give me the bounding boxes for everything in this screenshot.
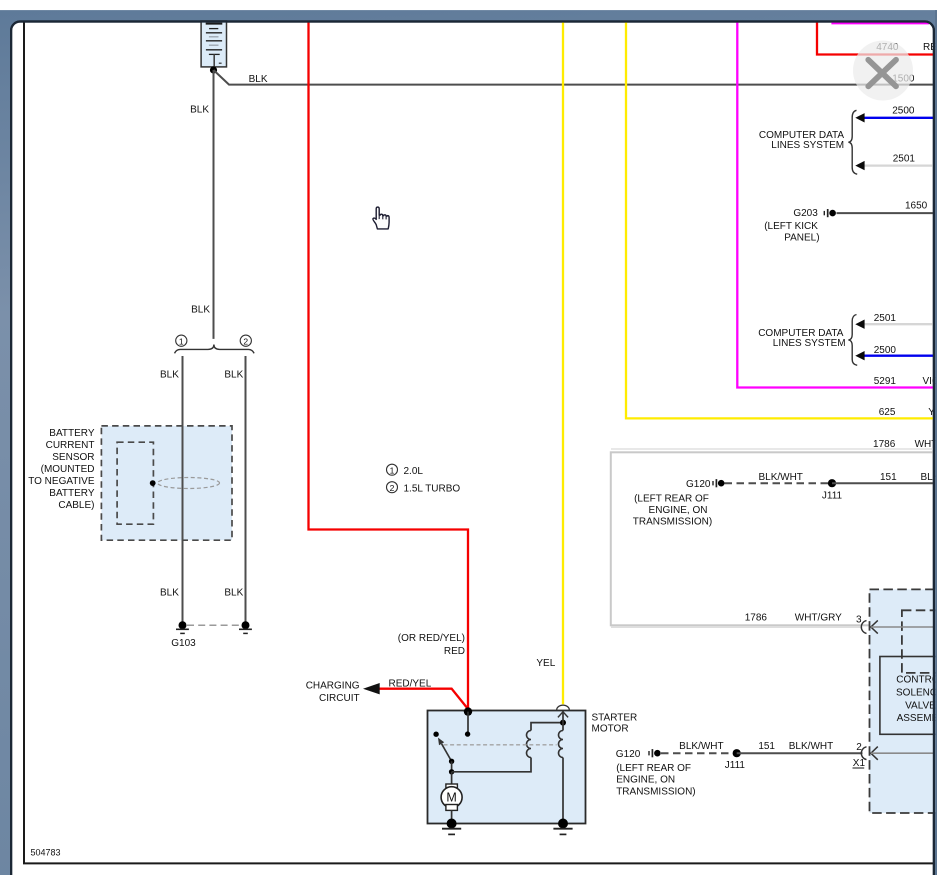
svg-text:BLK: BLK <box>249 74 268 85</box>
ground G103 left <box>176 621 189 633</box>
svg-text:151: 151 <box>758 741 775 752</box>
node: branch dot <box>449 769 454 774</box>
label circled 2 note <box>387 482 461 495</box>
arrow 2500 lower <box>855 351 864 360</box>
svg-text:BLK: BLK <box>160 369 179 380</box>
node: coil top dot <box>560 720 566 726</box>
arrow to charging circuit <box>363 683 380 694</box>
svg-text:BLK/WHT: BLK/WHT <box>789 741 833 752</box>
svg-text:(MOUNTED: (MOUNTED <box>41 464 95 475</box>
svg-text:J111: J111 <box>725 760 746 771</box>
svg-text:SOLENOID: SOLENOID <box>896 688 937 699</box>
label X1 <box>853 758 866 769</box>
wire YEL 625 <box>626 21 933 418</box>
wire feed stub <box>467 712 469 734</box>
svg-text:TO NEGATIVE: TO NEGATIVE <box>28 476 95 487</box>
wire dashed BLK/WHT upper <box>725 482 833 484</box>
svg-text:BATTERY: BATTERY <box>49 428 95 439</box>
svg-text:G103: G103 <box>171 638 196 649</box>
wire BLK horizontal from battery to right edge <box>214 70 934 85</box>
wire WHT 1786 upper <box>611 448 933 450</box>
svg-text:(OR RED/YEL): (OR RED/YEL) <box>398 633 465 644</box>
mechanical linkage dashed <box>444 744 557 746</box>
svg-text:RED: RED <box>444 646 465 657</box>
label circled 1 <box>176 335 187 346</box>
ground motor case <box>442 819 461 835</box>
ground G120 upper <box>713 479 725 487</box>
solenoid inner dashed box <box>902 610 937 673</box>
arrow 2501 <box>855 161 864 170</box>
node: stub end dot <box>465 731 470 736</box>
label circled 1 note <box>387 464 424 477</box>
wire 151 BLK/WHT lower <box>737 752 863 754</box>
svg-text:BLK: BLK <box>191 304 210 315</box>
label circled 2 <box>240 335 251 346</box>
svg-text:BLK/WHT: BLK/WHT <box>758 472 802 483</box>
svg-text:CONTROL: CONTROL <box>896 674 937 685</box>
switch arm <box>438 738 452 762</box>
wire to coil bottom <box>452 758 531 772</box>
wire 151 BLK upper <box>832 482 933 484</box>
node J111 upper <box>828 479 836 487</box>
svg-text:BLK: BLK <box>160 588 179 599</box>
svg-text:(LEFT REAR OF: (LEFT REAR OF <box>616 763 691 774</box>
connector pin 2 X1 <box>861 747 933 760</box>
wire 1650 <box>837 212 934 214</box>
dashed link between grounds <box>187 624 241 626</box>
svg-text:G203: G203 <box>793 208 818 219</box>
wire RED 4740 top right <box>817 21 933 55</box>
node: sensor tap dot <box>150 480 156 486</box>
svg-text:2500: 2500 <box>874 345 897 356</box>
node: red feed dot <box>464 707 472 715</box>
battery current sensor box <box>101 426 232 540</box>
svg-text:G120: G120 <box>616 749 641 760</box>
svg-text:BLK: BLK <box>190 105 209 116</box>
mouse cursor (hand) <box>373 207 389 229</box>
connector pin 3 <box>861 620 933 633</box>
solenoid valve dashed box <box>870 589 937 813</box>
svg-text:BATTERY: BATTERY <box>49 488 95 499</box>
wire BLK branch1 over sensor <box>182 426 184 540</box>
svg-text:151: 151 <box>880 472 897 483</box>
wire BLK branch 1 vertical <box>182 356 184 625</box>
svg-text:2500: 2500 <box>892 105 915 116</box>
switch contact dot <box>433 732 438 737</box>
node: switch lower dot <box>449 759 454 764</box>
wire GRY 2501 <box>864 164 933 166</box>
connector: yellow wire entry <box>557 705 570 717</box>
svg-text:ENGINE, ON: ENGINE, ON <box>616 775 675 786</box>
svg-text:PANEL): PANEL) <box>784 232 819 243</box>
svg-text:2: 2 <box>390 483 395 493</box>
motor M <box>441 772 462 824</box>
svg-text:1: 1 <box>179 336 184 346</box>
svg-text:1786: 1786 <box>745 612 768 623</box>
wire BLK vertical from battery down <box>213 70 215 339</box>
svg-text:STARTER: STARTER <box>592 712 638 723</box>
svg-text:G120: G120 <box>686 479 711 490</box>
wire to motor node <box>451 761 453 772</box>
svg-text:504783: 504783 <box>31 847 61 857</box>
wire BLK branch 2 vertical <box>245 356 247 625</box>
node: battery negative junction <box>210 66 217 73</box>
starter motor box <box>428 711 586 824</box>
brace: wire split <box>175 345 255 354</box>
svg-text:LINES SYSTEM: LINES SYSTEM <box>773 338 846 349</box>
brace group 2 <box>848 315 857 366</box>
close button <box>853 41 913 101</box>
svg-text:(LEFT KICK: (LEFT KICK <box>764 221 818 232</box>
right frame sliver <box>935 10 937 875</box>
wire VIO top <box>831 22 929 24</box>
solenoid inner solid box <box>880 657 937 735</box>
svg-text:1: 1 <box>390 465 395 475</box>
svg-text:2501: 2501 <box>874 313 897 324</box>
wire BLU 2500 <box>864 117 933 119</box>
wire RED main feed <box>309 21 469 712</box>
svg-text:1786: 1786 <box>873 439 896 450</box>
svg-text:CHARGING: CHARGING <box>306 680 360 691</box>
svg-text:YEL: YEL <box>536 658 555 669</box>
wire dashed BLK/WHT lower <box>661 752 737 754</box>
svg-text:VALVE: VALVE <box>905 701 936 712</box>
wire VIO 5291 <box>737 21 933 388</box>
wire YEL to starter <box>562 21 564 704</box>
wire WHT/GRY 1786 lower <box>611 626 863 628</box>
wire GRY 2501 lower <box>864 323 933 325</box>
wire BLU 2500 lower <box>864 355 933 357</box>
svg-text:X1: X1 <box>853 758 866 769</box>
svg-text:BLK/WHT: BLK/WHT <box>679 741 723 752</box>
svg-text:TRANSMISSION): TRANSMISSION) <box>633 517 712 528</box>
svg-text:1650: 1650 <box>905 201 928 212</box>
svg-text:2.0L: 2.0L <box>404 466 424 477</box>
coil L1 (pull-in winding) <box>527 731 532 758</box>
svg-text:(LEFT REAR OF: (LEFT REAR OF <box>634 494 709 505</box>
svg-text:3: 3 <box>856 615 862 626</box>
node J111 lower <box>733 749 741 757</box>
wire solenoid return <box>562 712 564 731</box>
svg-text:CURRENT: CURRENT <box>46 440 95 451</box>
svg-text:1.5L TURBO: 1.5L TURBO <box>404 483 461 494</box>
sensor clamp dashed ellipse <box>158 478 220 489</box>
svg-text:J111: J111 <box>822 491 843 502</box>
ground solenoid <box>553 819 572 835</box>
arrow 2501 lower <box>855 320 864 329</box>
wire RED/YEL charging circuit branch <box>380 689 469 709</box>
svg-text:ENGINE, ON: ENGINE, ON <box>649 505 708 516</box>
label CONTROL SOLENOID VALVE ASSEMBLY <box>896 674 937 724</box>
highlight box (gray) <box>611 452 937 625</box>
svg-text:625: 625 <box>879 407 896 418</box>
wire coil top link <box>531 723 563 731</box>
ground G120 lower <box>649 749 661 757</box>
svg-text:MOTOR: MOTOR <box>592 724 629 735</box>
ground G203 <box>824 209 836 217</box>
svg-text:CABLE): CABLE) <box>58 500 94 511</box>
svg-text:LINES SYSTEM: LINES SYSTEM <box>771 140 844 151</box>
arrow 2500 <box>855 113 864 122</box>
svg-text:WHT/GRY: WHT/GRY <box>795 612 842 623</box>
svg-text:2: 2 <box>243 336 248 346</box>
svg-text:BLK: BLK <box>224 369 243 380</box>
battery B1 <box>201 21 226 67</box>
svg-text:2501: 2501 <box>893 154 916 165</box>
brace group 1 <box>848 110 857 174</box>
ground right of G103 <box>239 621 252 633</box>
svg-text:RED/YEL: RED/YEL <box>389 678 432 689</box>
svg-text:TRANSMISSION): TRANSMISSION) <box>616 786 695 797</box>
svg-text:ASSEMBLY: ASSEMBLY <box>897 713 937 724</box>
coil L2 (hold-in winding) <box>559 731 564 758</box>
svg-text:SENSOR: SENSOR <box>52 452 94 463</box>
svg-text:BLK: BLK <box>224 588 243 599</box>
svg-text:5291: 5291 <box>874 376 897 387</box>
svg-text:CIRCUIT: CIRCUIT <box>319 693 360 704</box>
label battery current sensor <box>28 428 95 511</box>
svg-text:M: M <box>446 791 456 805</box>
battery current sensor inner box <box>117 442 153 524</box>
